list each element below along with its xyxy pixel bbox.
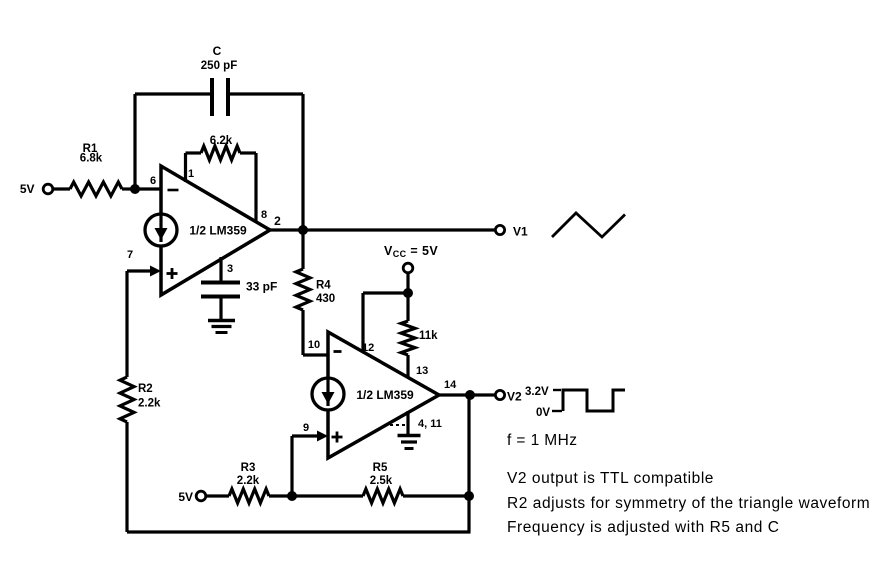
- svg-text:5V: 5V: [178, 490, 193, 504]
- svg-text:7: 7: [127, 249, 133, 261]
- wire to pin 13: [408, 355, 428, 378]
- svg-text:12: 12: [362, 342, 374, 354]
- label 0V level: [536, 407, 562, 419]
- svg-text:3: 3: [227, 263, 233, 275]
- wire up to V2 node: [467, 395, 470, 532]
- svg-text:4, 11: 4, 11: [418, 418, 442, 430]
- square waveform glyph: [563, 390, 625, 411]
- wire: [125, 422, 128, 532]
- svg-text:1/2 LM359: 1/2 LM359: [189, 224, 247, 238]
- triangle waveform glyph: [552, 213, 625, 237]
- svg-text:3.2V: 3.2V: [525, 386, 549, 398]
- wire inv input: [135, 175, 161, 189]
- resistor 6.2k: [201, 135, 240, 160]
- svg-text:13: 13: [416, 365, 428, 377]
- svg-text:14: 14: [444, 379, 457, 391]
- resistor R4 430: [296, 269, 335, 310]
- output wire U1: [270, 214, 303, 230]
- pin 1 stub: [186, 153, 195, 182]
- note line 1: [507, 470, 714, 487]
- wire: [406, 293, 409, 321]
- plus input symbol U2: [332, 432, 343, 443]
- pin 9 wire: [292, 422, 328, 442]
- op-amp U2 1/2 LM359: [328, 332, 439, 458]
- svg-text:R5: R5: [373, 462, 388, 474]
- wire up to C: [133, 94, 136, 191]
- svg-text:0V: 0V: [536, 407, 550, 419]
- terminal V1: [495, 225, 528, 239]
- svg-text:6: 6: [150, 175, 156, 187]
- wire: [122, 187, 135, 190]
- svg-text:250 pF: 250 pF: [201, 60, 237, 72]
- capacitor C 250 pF: [201, 44, 237, 116]
- wire: [292, 494, 363, 497]
- svg-text:VCC = 5V: VCC = 5V: [384, 244, 438, 259]
- label Vcc = 5V: [384, 244, 438, 259]
- svg-text:R4: R4: [316, 280, 331, 292]
- wire down to node 2: [301, 94, 304, 230]
- svg-text:6.2k: 6.2k: [210, 135, 233, 147]
- node 2 junction: [298, 225, 308, 235]
- svg-text:8: 8: [261, 209, 267, 221]
- resistor 11k: [401, 321, 438, 355]
- node junction R3 R5: [287, 491, 297, 501]
- current source symbol U2: [312, 378, 344, 410]
- svg-text:R3: R3: [241, 462, 256, 474]
- label f = 1 MHz: [507, 432, 577, 449]
- resistor R3 2.2k: [229, 462, 269, 503]
- svg-text:R2: R2: [138, 383, 153, 395]
- minus input symbol U2: [334, 350, 342, 353]
- current source symbol U1: [145, 214, 177, 246]
- svg-text:1/2 LM359: 1/2 LM359: [356, 388, 414, 402]
- svg-text:2.2k: 2.2k: [138, 398, 161, 410]
- pin 3 stub: [221, 257, 233, 282]
- wire to inv input U2: [303, 339, 328, 355]
- Vcc junction: [403, 288, 413, 298]
- terminal V2: [495, 390, 522, 404]
- wire: [135, 92, 212, 95]
- terminal Vcc: [403, 263, 413, 293]
- pin 12 stub: [362, 293, 374, 354]
- svg-text:V2: V2: [507, 390, 522, 404]
- op-amp U1 1/2 LM359: [161, 166, 270, 295]
- wire to V1: [303, 228, 495, 231]
- svg-text:V2 output is TTL compatible: V2 output is TTL compatible: [507, 470, 714, 487]
- svg-text:10: 10: [308, 339, 320, 351]
- svg-text:5V: 5V: [20, 182, 35, 196]
- resistor R5 2.5k: [363, 462, 403, 503]
- resistor R2 2.2k: [120, 377, 161, 422]
- node junction inv input U1: [130, 184, 140, 194]
- resistor R1 6.8k: [70, 143, 122, 196]
- wire: [269, 494, 292, 497]
- wire down to R3 node: [290, 436, 293, 496]
- minus input symbol U1: [168, 189, 179, 192]
- wire down to R2: [125, 271, 128, 377]
- svg-text:2.2k: 2.2k: [237, 475, 260, 487]
- svg-text:R2 adjusts for symmetry of the: R2 adjusts for symmetry of the triangle …: [507, 495, 870, 512]
- pin 7 wire: [127, 249, 161, 277]
- plus input symbol U1: [167, 268, 178, 279]
- svg-text:33 pF: 33 pF: [246, 280, 277, 294]
- wire: [301, 230, 304, 269]
- wire: [186, 151, 202, 154]
- wire down to pin 8: [256, 153, 267, 223]
- note line 3: [507, 519, 780, 536]
- terminal 5V bottom: [178, 490, 205, 504]
- capacitor 33 pF: [201, 280, 277, 297]
- wire: [228, 92, 303, 95]
- svg-text:1: 1: [188, 168, 194, 180]
- label 3.2V level: [525, 386, 561, 398]
- node junction V2: [465, 390, 475, 400]
- wire: [53, 187, 70, 190]
- svg-text:9: 9: [303, 422, 309, 434]
- bottom rail wire: [127, 530, 471, 533]
- node junction R5 out: [464, 491, 474, 501]
- svg-text:V1: V1: [513, 225, 528, 239]
- output wire U2: [439, 379, 495, 395]
- ground U1 cap: [208, 321, 235, 333]
- wire: [206, 494, 229, 497]
- wire: [363, 291, 408, 294]
- svg-text:430: 430: [316, 293, 335, 305]
- terminal 5V input: [20, 182, 53, 196]
- svg-text:2: 2: [274, 214, 281, 228]
- svg-text:6.8k: 6.8k: [80, 153, 103, 165]
- svg-text:f = 1 MHz: f = 1 MHz: [507, 432, 577, 449]
- pin 4 11 ground stub: [390, 411, 442, 434]
- wire: [301, 310, 304, 355]
- ground U2: [398, 436, 421, 449]
- svg-text:11k: 11k: [419, 330, 438, 342]
- svg-text:2.5k: 2.5k: [370, 475, 393, 487]
- note line 2: [507, 495, 870, 512]
- svg-text:Frequency is adjusted with R5: Frequency is adjusted with R5 and C: [507, 519, 780, 536]
- wire: [403, 494, 469, 497]
- svg-text:C: C: [213, 44, 222, 58]
- wire: [240, 151, 256, 154]
- wire: [219, 296, 222, 319]
